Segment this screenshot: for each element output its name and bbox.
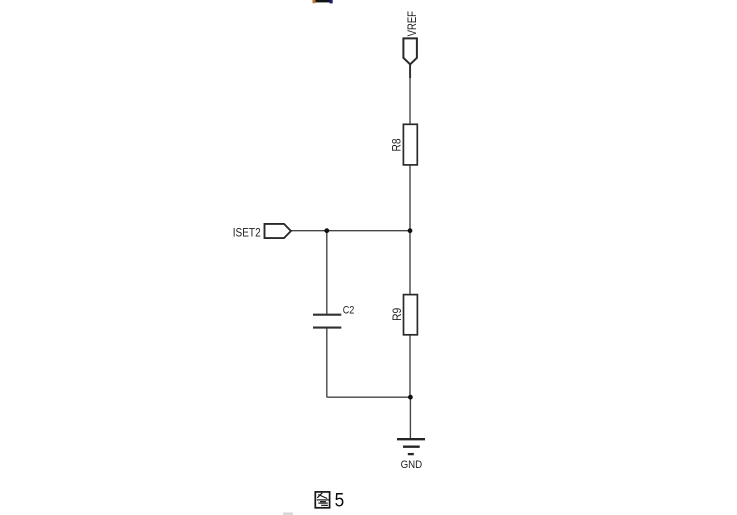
svg-text:R9: R9 — [391, 308, 404, 321]
svg-text:GND: GND — [401, 459, 423, 471]
svg-text:R8: R8 — [390, 139, 403, 152]
svg-text:VREF: VREF — [405, 11, 419, 37]
svg-text:ISET2: ISET2 — [233, 226, 261, 239]
svg-text:C2: C2 — [343, 304, 355, 316]
svg-text:5: 5 — [335, 490, 345, 512]
